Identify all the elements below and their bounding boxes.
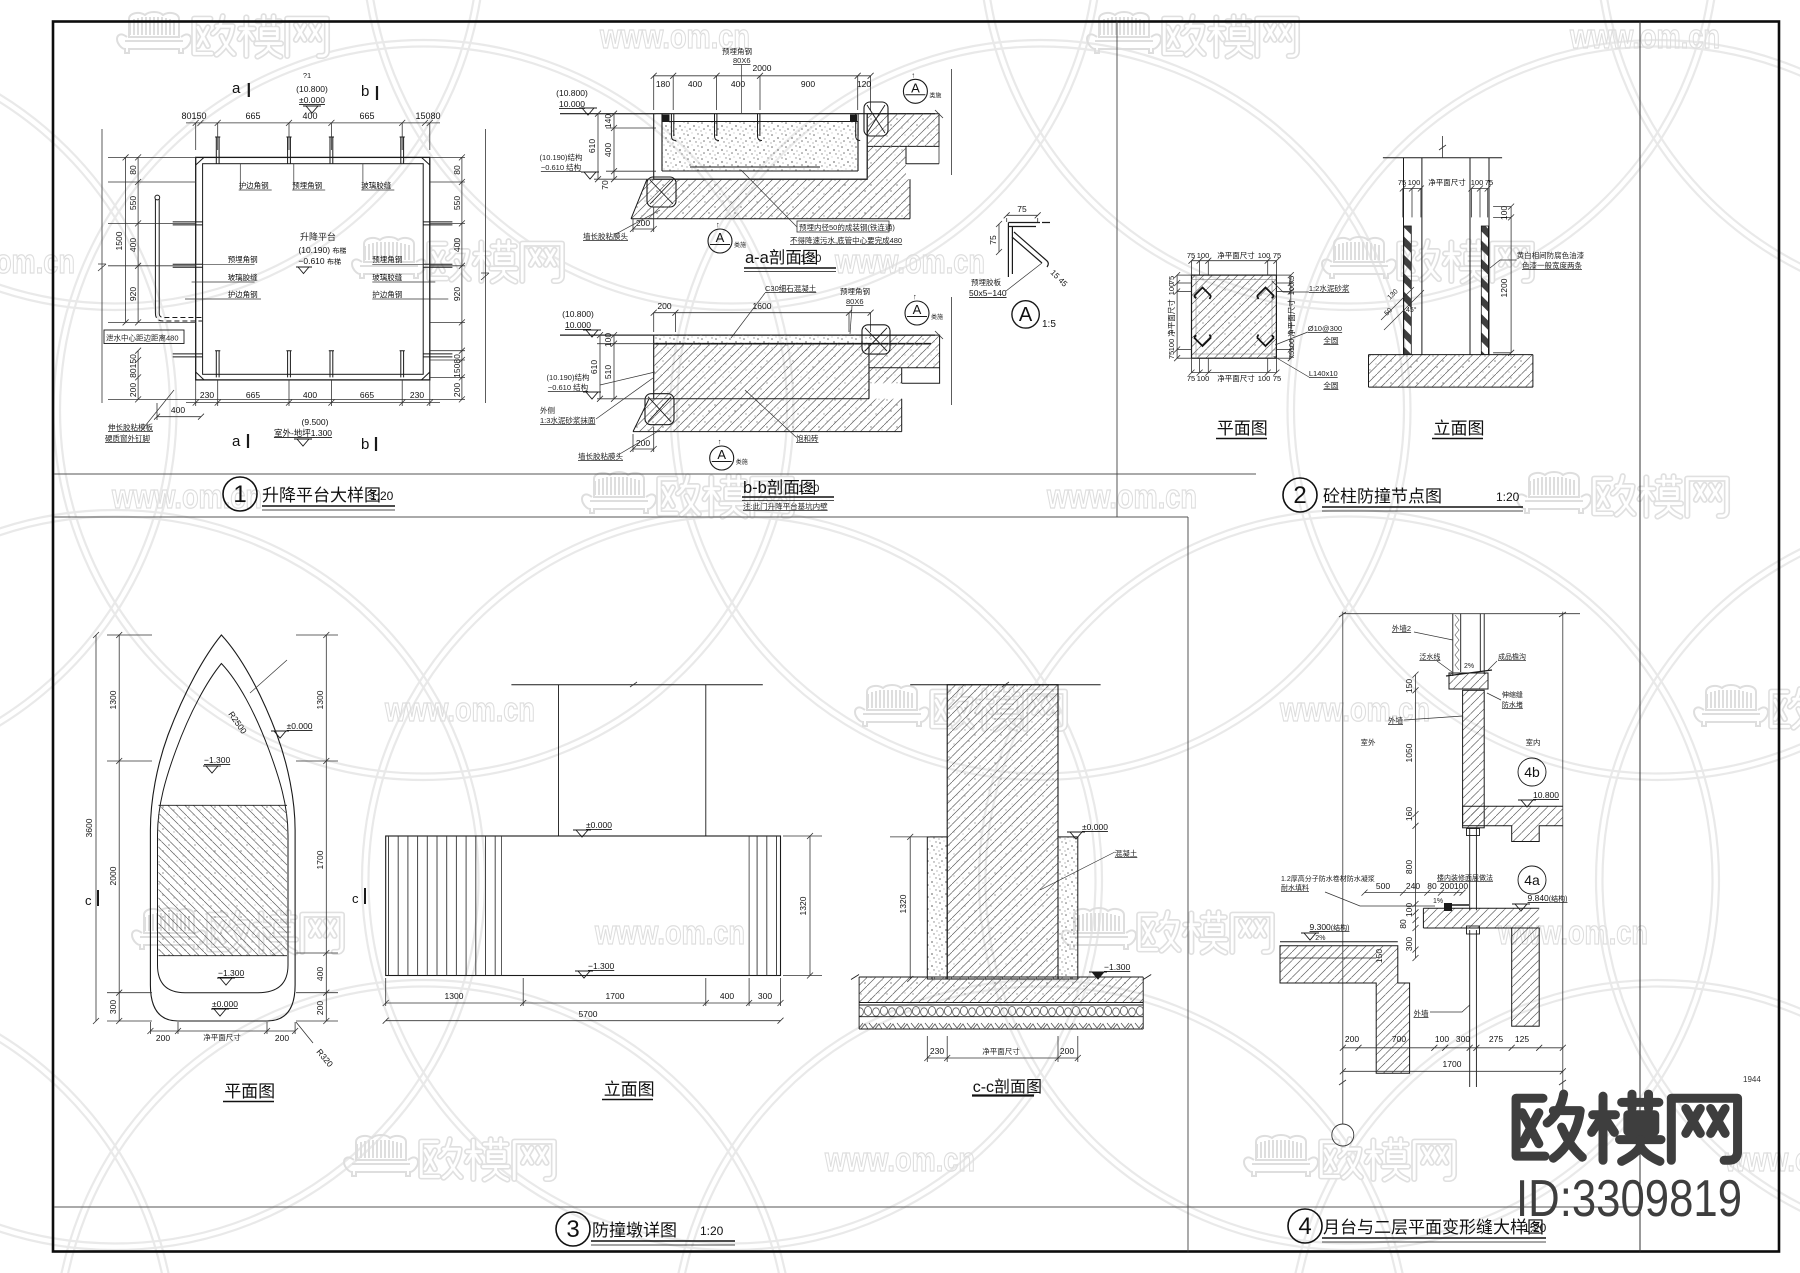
s3 elevation block <box>386 836 781 976</box>
s2 plan top dims <box>1174 258 1294 376</box>
svg-text:240: 240 <box>1406 881 1420 891</box>
svg-text:全圆: 全圆 <box>1323 380 1338 390</box>
s4 circle 4a <box>1518 866 1546 894</box>
a-a ground strip <box>631 179 910 219</box>
s2 stripe dims <box>1381 287 1424 330</box>
svg-text:80: 80 <box>1398 919 1408 929</box>
title 2: concrete column anti-collision node <box>1283 478 1523 512</box>
svg-text:耐水填料: 耐水填料 <box>1281 883 1309 892</box>
title 3: anti-collision pier detail <box>556 1212 735 1246</box>
svg-text:净平面尺寸: 净平面尺寸 <box>1166 299 1176 337</box>
a-a cut box bottom-left <box>647 177 676 207</box>
svg-text:200: 200 <box>315 1001 325 1015</box>
vertical divider top <box>1116 22 1118 518</box>
svg-text:100: 100 <box>1287 283 1296 296</box>
b-b top line <box>560 334 935 336</box>
svg-text:1320: 1320 <box>798 896 808 915</box>
svg-text:1.2厚高分子防水卷材防水凝浆: 1.2厚高分子防水卷材防水凝浆 <box>1281 874 1375 883</box>
b-b top dim chain <box>651 310 874 332</box>
svg-text:920: 920 <box>128 287 138 301</box>
svg-text:↑: ↑ <box>911 70 915 79</box>
svg-text:400: 400 <box>452 238 462 252</box>
a-a 200 dim <box>630 207 657 232</box>
svg-text:www.om.cn: www.om.cn <box>1279 691 1430 729</box>
svg-text:200: 200 <box>657 301 671 311</box>
internal leader labels <box>228 180 403 299</box>
svg-text:a: a <box>232 80 241 97</box>
svg-text:防水堵: 防水堵 <box>1502 700 1523 709</box>
svg-text:100: 100 <box>603 333 613 347</box>
b-b body hatch <box>654 344 869 399</box>
watermark sofa+logo <box>1694 685 1768 726</box>
anchor bolts top <box>215 137 220 164</box>
svg-text:400: 400 <box>603 143 613 157</box>
svg-text:400: 400 <box>302 111 317 121</box>
top dimension chain <box>186 120 440 150</box>
b-b left dims <box>597 332 656 402</box>
svg-text:100: 100 <box>1167 339 1176 352</box>
svg-text:色漆一般宽度两条: 色漆一般宽度两条 <box>1522 260 1582 270</box>
svg-text:4a: 4a <box>1524 872 1540 888</box>
s3 c-c left dim <box>890 834 930 982</box>
svg-text:注:此门升降平台基坑内壁: 注:此门升降平台基坑内壁 <box>743 501 828 511</box>
svg-text:1:20: 1:20 <box>700 1224 724 1238</box>
s4 left platform roof <box>1280 941 1398 943</box>
svg-text:立面图: 立面图 <box>1434 419 1485 438</box>
svg-text:45°: 45° <box>1406 306 1417 314</box>
svg-text:立面图: 立面图 <box>604 1080 655 1099</box>
svg-text:室外: 室外 <box>1361 737 1377 747</box>
s4 small axis circle <box>1332 1124 1354 1146</box>
svg-text:100: 100 <box>1197 251 1210 260</box>
svg-text:50x5−140: 50x5−140 <box>969 288 1007 298</box>
svg-text:100: 100 <box>1499 206 1509 220</box>
svg-text:室内: 室内 <box>1526 737 1541 747</box>
svg-text:100: 100 <box>1408 178 1421 187</box>
svg-text:室外-地坪1.300: 室外-地坪1.300 <box>274 428 332 438</box>
svg-text:3: 3 <box>566 1216 579 1243</box>
svg-text:100: 100 <box>1435 1034 1449 1044</box>
svg-text:防撞墩详图: 防撞墩详图 <box>592 1221 677 1240</box>
svg-text:c-c剖面图: c-c剖面图 <box>973 1078 1042 1096</box>
svg-text:100: 100 <box>1197 374 1210 383</box>
a-a J-bolts <box>671 114 860 141</box>
svg-text:75: 75 <box>1485 178 1493 187</box>
svg-text:400: 400 <box>688 79 702 89</box>
svg-text:类施: 类施 <box>931 313 943 321</box>
svg-text:400: 400 <box>720 991 734 1001</box>
svg-text:A: A <box>913 302 922 317</box>
svg-text:净平面尺寸: 净平面尺寸 <box>1217 373 1255 383</box>
big OM logo dark <box>1516 1094 1737 1161</box>
a-a A-callout bottom <box>708 229 732 253</box>
b-b right slab <box>869 335 940 383</box>
a-a slab top line <box>560 113 935 115</box>
svg-text:类施: 类施 <box>736 458 748 466</box>
title 4: platform & 2nd floor deformation joint <box>1288 1209 1547 1243</box>
svg-text:泛水线: 泛水线 <box>1419 652 1440 661</box>
svg-text:200: 200 <box>452 383 462 397</box>
b-b A-callout bottom <box>710 446 734 470</box>
svg-text:230: 230 <box>410 390 424 400</box>
svg-text:400: 400 <box>128 238 138 252</box>
svg-text:75: 75 <box>1187 251 1195 260</box>
svg-text:75: 75 <box>988 235 998 245</box>
svg-text:(10.800): (10.800) <box>296 84 328 94</box>
svg-text:类施: 类施 <box>929 91 941 99</box>
svg-text:饱和砖: 饱和砖 <box>796 433 819 443</box>
svg-text:净平面尺寸: 净平面尺寸 <box>1217 250 1255 260</box>
svg-text:黄白相间防腐色油漆: 黄白相间防腐色油漆 <box>1517 250 1585 260</box>
s4 axis lines <box>1339 612 1566 1090</box>
svg-text:A: A <box>1019 304 1033 326</box>
svg-text:900: 900 <box>801 79 815 89</box>
s4 slab dims above <box>1362 890 1466 896</box>
svg-text:80150: 80150 <box>181 111 206 121</box>
svg-text:160: 160 <box>1404 807 1414 821</box>
s4 bottom dims <box>1340 1045 1566 1051</box>
b-b A-callout top-right <box>905 301 929 325</box>
svg-text:1:5: 1:5 <box>1042 319 1056 330</box>
svg-text:成品檐沟: 成品檐沟 <box>1498 652 1526 661</box>
boxed note: drain center distance 480 <box>104 330 184 344</box>
a-a A-callout top-right <box>903 79 927 103</box>
svg-text:1050: 1050 <box>1404 743 1414 762</box>
svg-text:140: 140 <box>603 114 613 128</box>
svg-text:ID:3309819: ID:3309819 <box>1516 1170 1742 1228</box>
a-a break mark right <box>935 110 943 164</box>
s4 window upper <box>1467 828 1480 911</box>
s4 window lower <box>1467 926 1480 1087</box>
s3 c-c column <box>947 685 1058 979</box>
a-a top dim chain 2000 <box>651 73 874 110</box>
svg-text:b: b <box>361 83 369 100</box>
svg-text:−1.300: −1.300 <box>588 961 615 971</box>
svg-text:c: c <box>352 891 359 906</box>
s2 plan corner angles <box>1194 288 1274 347</box>
svg-text:(10.800): (10.800) <box>562 309 594 319</box>
s2 plan hatched column <box>1192 275 1277 358</box>
svg-text:预埋内径50的成装钢(铁连通): 预埋内径50的成装钢(铁连通) <box>799 222 895 232</box>
s3 c-c wings <box>927 837 947 979</box>
svg-text:www.om.cn: www.om.cn <box>1046 478 1197 516</box>
svg-text:125: 125 <box>1515 1034 1529 1044</box>
bottom dimension chain <box>141 380 440 431</box>
svg-text:(9.500): (9.500) <box>302 417 329 427</box>
s3 c-c ground strips <box>859 977 1143 1003</box>
watermark sofa+logo <box>132 908 206 949</box>
svg-text:75: 75 <box>1167 351 1176 359</box>
svg-text:400: 400 <box>315 967 325 981</box>
svg-text:(10.190)结构: (10.190)结构 <box>540 152 583 162</box>
svg-text:?1: ?1 <box>303 71 311 80</box>
svg-text:护边角钢: 护边角钢 <box>239 180 269 190</box>
a-a left dims <box>594 111 656 183</box>
svg-text:300: 300 <box>1456 1034 1470 1044</box>
svg-text:400: 400 <box>303 390 317 400</box>
watermark sofa+logo <box>1322 237 1396 278</box>
svg-text:±0.000: ±0.000 <box>586 820 612 830</box>
svg-text:↑: ↑ <box>718 437 722 446</box>
svg-text:平面图: 平面图 <box>1217 419 1268 438</box>
svg-text:5700: 5700 <box>579 1009 598 1019</box>
s3 c-c top line <box>910 684 1100 686</box>
svg-text:www.om.cn: www.om.cn <box>834 243 985 281</box>
L-angle detail <box>996 212 1041 255</box>
svg-text:300: 300 <box>1404 937 1414 951</box>
svg-text:墙长胶粘膜头: 墙长胶粘膜头 <box>578 451 623 461</box>
section cut marks a/b <box>232 80 369 453</box>
s3 c-c bottom dims <box>924 1036 1081 1062</box>
svg-text:665: 665 <box>359 111 374 121</box>
s4 floor slab 10.800 <box>1463 806 1563 841</box>
s3 plan right dims <box>296 632 338 1024</box>
svg-text:75: 75 <box>1017 204 1027 214</box>
svg-text:全圆: 全圆 <box>1323 335 1338 345</box>
svg-text:c: c <box>85 893 92 908</box>
svg-text:1300: 1300 <box>108 690 118 709</box>
b-b cut box top-right <box>862 325 890 354</box>
svg-text:1:3水泥砂浆抹面: 1:3水泥砂浆抹面 <box>540 415 596 425</box>
s3 plan hatch fill <box>159 805 288 955</box>
svg-text:1:20: 1:20 <box>800 253 821 265</box>
svg-text:伸缩缝: 伸缩缝 <box>1502 690 1523 699</box>
b-b topping speckle band <box>654 335 868 344</box>
b-b ground strip <box>633 399 902 432</box>
svg-text:75: 75 <box>1273 374 1281 383</box>
s4 upper wall hatched <box>1463 690 1485 828</box>
svg-text:200: 200 <box>128 383 138 397</box>
s4 right wall lower <box>1512 928 1540 1026</box>
svg-text:1320: 1320 <box>898 894 908 913</box>
watermark sofa+logo <box>1517 472 1591 513</box>
svg-text:净平面尺寸: 净平面尺寸 <box>203 1032 241 1042</box>
svg-text:墙长胶粘膜头: 墙长胶粘膜头 <box>583 231 628 241</box>
svg-text:400: 400 <box>731 79 745 89</box>
svg-text:200: 200 <box>1345 1034 1359 1044</box>
svg-text:1700: 1700 <box>315 850 325 869</box>
svg-text:4: 4 <box>1298 1213 1311 1240</box>
a-a cut box top-right <box>864 102 888 136</box>
svg-text:1500: 1500 <box>114 231 124 250</box>
svg-text:10.800: 10.800 <box>1533 790 1559 800</box>
svg-text:±0.000: ±0.000 <box>299 95 325 105</box>
svg-text:80150: 80150 <box>128 354 138 378</box>
svg-text:玻璃胶缝: 玻璃胶缝 <box>372 272 402 282</box>
svg-text:100: 100 <box>1404 903 1414 917</box>
svg-text:1200: 1200 <box>1499 278 1509 297</box>
svg-text:800: 800 <box>1404 860 1414 874</box>
s3 plan boat inner <box>158 664 289 993</box>
s2 ground strip <box>1369 355 1533 388</box>
title band line lower <box>54 516 1188 518</box>
watermark sofa+logo <box>117 12 191 53</box>
svg-text:混凝土: 混凝土 <box>1115 848 1138 858</box>
svg-text:a: a <box>232 433 241 450</box>
svg-text:伸长胶粘模板: 伸长胶粘模板 <box>108 422 153 432</box>
svg-text:2: 2 <box>1293 482 1306 509</box>
s4 upper wall with insulation <box>1453 614 1484 676</box>
svg-text:80X6: 80X6 <box>846 297 864 306</box>
svg-text:80: 80 <box>452 165 462 175</box>
svg-text:预埋角钢: 预埋角钢 <box>722 46 752 56</box>
svg-text:2%: 2% <box>1464 663 1474 670</box>
svg-text:平面图: 平面图 <box>224 1082 275 1101</box>
bottom band line <box>54 1206 1639 1208</box>
a-a tray outline <box>654 114 868 180</box>
svg-text:200: 200 <box>156 1033 170 1043</box>
watermark sofa+logo <box>344 1135 418 1176</box>
corner chamfers <box>196 157 430 380</box>
svg-text:1: 1 <box>233 481 246 508</box>
a-a corner angles <box>663 115 670 122</box>
a-a tray concrete fill <box>662 122 858 172</box>
s3 plan boat outer <box>150 635 295 1021</box>
s2 guard dims <box>1400 186 1491 218</box>
svg-text:150: 150 <box>1404 679 1414 693</box>
b-b cut box bottom-left <box>645 394 674 425</box>
svg-text:L140x10: L140x10 <box>1309 369 1338 378</box>
watermark sofa+logo <box>1087 12 1161 53</box>
s4 platform slab 9.840 <box>1423 908 1539 928</box>
s4 top line <box>1343 613 1580 615</box>
left dimension chains <box>98 129 196 403</box>
svg-text:玻璃胶缝: 玻璃胶缝 <box>228 272 258 282</box>
svg-text:护边角钢: 护边角钢 <box>228 289 258 299</box>
watermark sofa+logo <box>1244 1135 1318 1176</box>
svg-text:100: 100 <box>1258 374 1271 383</box>
svg-text:700: 700 <box>1392 1034 1406 1044</box>
s4 1700 dim <box>1340 1068 1566 1074</box>
svg-text:1944: 1944 <box>1743 1075 1761 1084</box>
svg-text:120: 120 <box>857 79 871 89</box>
svg-text:610: 610 <box>589 360 599 374</box>
drain pipe <box>155 195 202 321</box>
svg-text:1700: 1700 <box>606 991 625 1001</box>
svg-text:100: 100 <box>1471 178 1484 187</box>
svg-text:1:20: 1:20 <box>798 483 819 495</box>
svg-text:www.om.cn: www.om.cn <box>384 691 535 729</box>
s4 left dim chain <box>1413 672 1419 961</box>
svg-text:±0.000: ±0.000 <box>212 999 238 1009</box>
svg-text:10.000: 10.000 <box>559 99 585 109</box>
title band line upper <box>54 473 1256 475</box>
svg-text:300: 300 <box>758 991 772 1001</box>
svg-text:净平面尺寸: 净平面尺寸 <box>1286 299 1296 337</box>
svg-text:±0.000: ±0.000 <box>287 721 313 731</box>
a-a right extension line <box>951 69 953 175</box>
svg-text:75: 75 <box>1287 351 1296 359</box>
svg-text:±0.000: ±0.000 <box>1082 822 1108 832</box>
svg-text:−1.300: −1.300 <box>204 755 231 765</box>
svg-text:2000: 2000 <box>753 63 772 73</box>
svg-text:www.om.cn: www.om.cn <box>0 243 75 281</box>
svg-text:100: 100 <box>1287 339 1296 352</box>
platform outer square <box>196 157 430 380</box>
vertical divider bottom <box>1187 517 1189 1252</box>
svg-text:C30细石混凝土: C30细石混凝土 <box>765 283 817 293</box>
svg-text:净平面尺寸: 净平面尺寸 <box>1428 177 1466 187</box>
svg-text:不得降速污水,底管中心要完成480: 不得降速污水,底管中心要完成480 <box>790 235 902 245</box>
svg-text:−1.300: −1.300 <box>218 968 245 978</box>
svg-text:−0.610 结构: −0.610 结构 <box>541 162 582 172</box>
svg-text:外墙2: 外墙2 <box>1392 623 1411 633</box>
inner fold line right <box>1639 22 1641 1252</box>
svg-text:外侧: 外侧 <box>540 405 555 415</box>
svg-text:15080: 15080 <box>452 354 462 378</box>
svg-text:200: 200 <box>1060 1046 1074 1056</box>
s3 plan left dims <box>93 632 152 1024</box>
svg-text:80: 80 <box>1427 881 1437 891</box>
svg-text:1:20: 1:20 <box>370 489 394 503</box>
svg-text:70: 70 <box>600 180 610 190</box>
platform inner square <box>203 164 424 375</box>
s3 elevation right dim <box>783 833 822 979</box>
svg-text:(10.800): (10.800) <box>556 88 588 98</box>
svg-text:2000: 2000 <box>108 866 118 885</box>
svg-text:A: A <box>911 80 920 95</box>
svg-text:1:20: 1:20 <box>1496 490 1520 504</box>
svg-text:(10.190)结构: (10.190)结构 <box>547 372 590 382</box>
svg-text:砼柱防撞节点图: 砼柱防撞节点图 <box>1323 487 1442 506</box>
svg-text:楼内装修面层做法: 楼内装修面层做法 <box>1437 873 1493 882</box>
svg-text:预埋角钢: 预埋角钢 <box>372 254 402 264</box>
svg-text:665: 665 <box>246 390 260 400</box>
svg-text:月台与二层平面变形缝大样图: 月台与二层平面变形缝大样图 <box>1323 1218 1544 1237</box>
svg-text:550: 550 <box>452 196 462 210</box>
svg-text:1300: 1300 <box>445 991 464 1001</box>
svg-text:b: b <box>361 436 369 453</box>
svg-text:升降平台: 升降平台 <box>300 231 336 242</box>
svg-text:80: 80 <box>128 165 138 175</box>
s3 elevation bottom dims <box>383 978 784 1024</box>
svg-text:180: 180 <box>656 79 670 89</box>
svg-text:15080: 15080 <box>415 111 440 121</box>
svg-text:1300: 1300 <box>315 690 325 709</box>
svg-text:类施: 类施 <box>734 241 746 249</box>
svg-text:泄水中心距边距离480: 泄水中心距边距离480 <box>106 333 179 343</box>
svg-text:净平面尺寸: 净平面尺寸 <box>982 1046 1020 1056</box>
svg-text:10.000: 10.000 <box>565 320 591 330</box>
svg-text:−1.300: −1.300 <box>1104 962 1131 972</box>
svg-text:100: 100 <box>1258 251 1271 260</box>
svg-text:1700: 1700 <box>1443 1059 1462 1069</box>
svg-text:外墙: 外墙 <box>1414 1008 1430 1018</box>
svg-text:1%: 1% <box>1433 898 1443 905</box>
svg-text:硬质窗外钉脚: 硬质窗外钉脚 <box>105 433 150 443</box>
s2 right dims <box>1493 204 1514 356</box>
svg-text:3600: 3600 <box>84 818 94 837</box>
svg-text:升降平台大样图: 升降平台大样图 <box>262 486 381 505</box>
s3 plan bottom dims <box>147 1022 313 1043</box>
svg-text:预埋角钢: 预埋角钢 <box>292 180 322 190</box>
svg-text:665: 665 <box>245 111 260 121</box>
svg-text:护边角钢: 护边角钢 <box>372 289 402 299</box>
big A 1:5 circle <box>1012 301 1039 328</box>
svg-text:610: 610 <box>587 139 597 153</box>
svg-text:510: 510 <box>603 365 613 379</box>
svg-text:A: A <box>717 447 726 462</box>
svg-text:75: 75 <box>1398 178 1406 187</box>
svg-text:预埋角钢: 预埋角钢 <box>840 286 870 296</box>
svg-text:665: 665 <box>360 390 374 400</box>
s3 elevation top line <box>511 684 762 686</box>
svg-text:A: A <box>716 230 725 245</box>
svg-text:275: 275 <box>1489 1034 1503 1044</box>
svg-text:1:2水泥砂浆: 1:2水泥砂浆 <box>1309 283 1350 293</box>
svg-text:4b: 4b <box>1524 764 1540 780</box>
s4 circle 4b <box>1518 758 1546 786</box>
